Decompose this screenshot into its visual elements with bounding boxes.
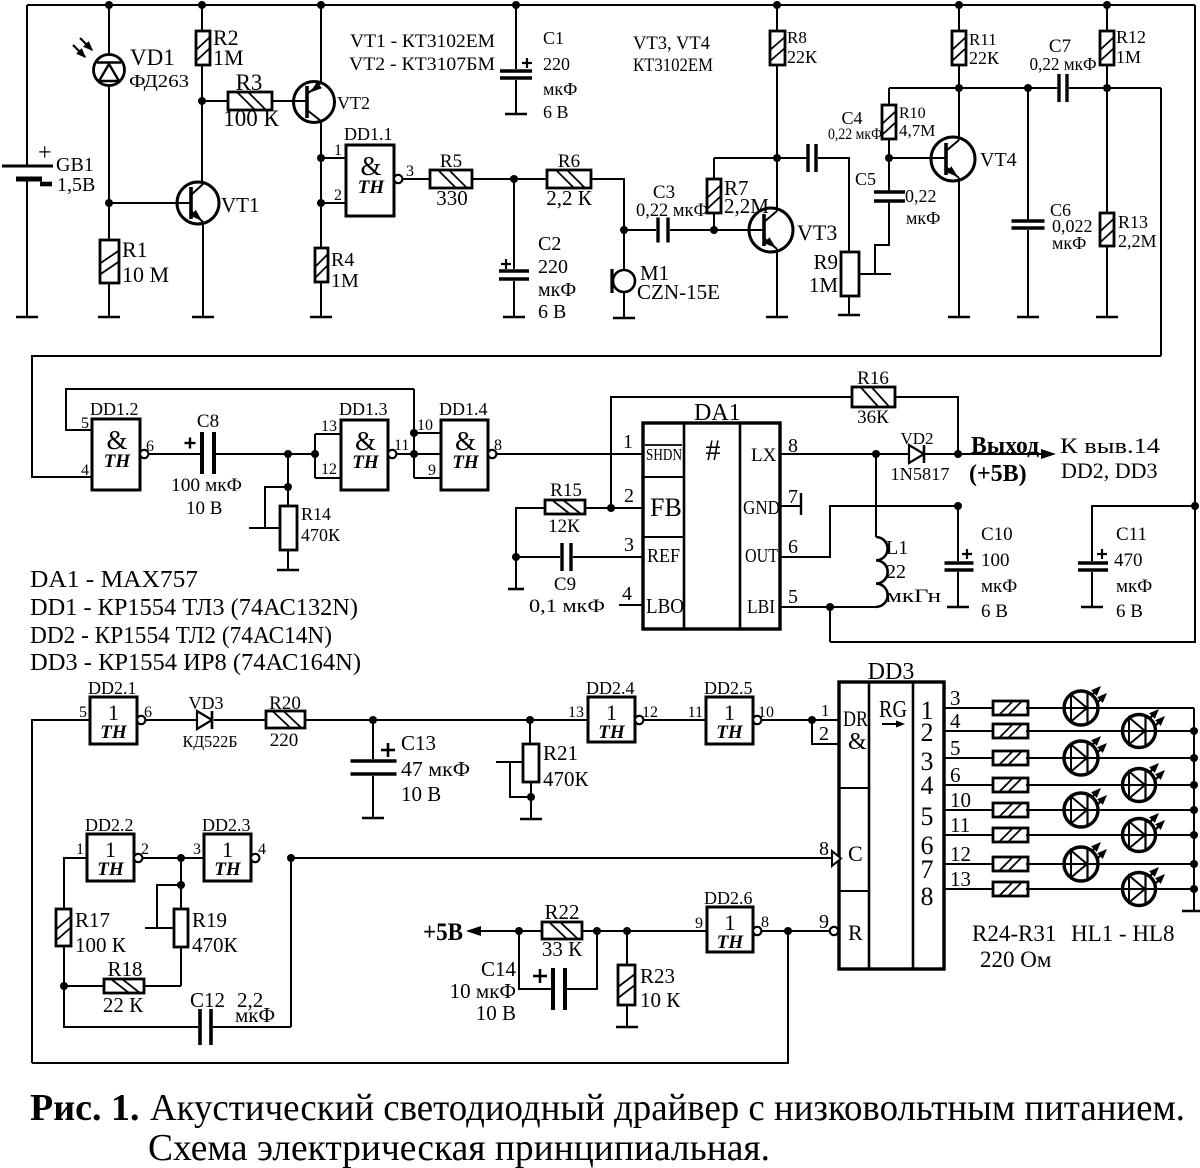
svg-text:6: 6	[146, 438, 154, 455]
capacitor C10	[957, 506, 959, 561]
DD3 output pin 12 wire	[944, 863, 994, 865]
LED HL3	[1064, 741, 1098, 775]
svg-text:HL1 - HL8: HL1 - HL8	[1071, 921, 1174, 946]
DD3 output pin 5 wire	[944, 757, 994, 759]
svg-text:VT2 - КТ3107БМ: VT2 - КТ3107БМ	[349, 54, 495, 75]
svg-text:R15: R15	[550, 480, 582, 501]
wire LED to rail	[1098, 863, 1194, 865]
capacitor C13	[372, 720, 374, 759]
wire LED to rail	[1156, 730, 1194, 732]
svg-text:5: 5	[79, 704, 87, 721]
svg-text:10: 10	[950, 788, 971, 812]
DD3 output pin 4 wire	[944, 730, 994, 732]
svg-text:470К: 470К	[192, 933, 239, 957]
inductor L1	[875, 454, 877, 537]
svg-text:ТН: ТН	[100, 722, 128, 743]
svg-text:+: +	[38, 140, 52, 166]
resistor R1	[108, 203, 110, 240]
wire R28 to LED	[1026, 809, 1081, 811]
wire R30 to LED	[1026, 863, 1081, 865]
wire: right edge battery-sense rail	[830, 5, 1195, 642]
svg-text:DD1.2: DD1.2	[90, 399, 139, 419]
capacitor C8	[200, 432, 204, 474]
svg-text:LX: LX	[751, 445, 777, 466]
svg-text:DD1.3: DD1.3	[339, 399, 388, 419]
wire LBI pin5 / L1	[780, 606, 876, 608]
wire LBO pin4	[619, 604, 643, 606]
svg-text:R14: R14	[301, 504, 331, 524]
svg-text:3: 3	[193, 841, 201, 858]
svg-text:2,2 К: 2,2 К	[546, 186, 593, 210]
svg-text:10: 10	[758, 704, 774, 721]
resistor R31	[993, 882, 1028, 896]
capacitor C9	[516, 556, 560, 558]
svg-text:2: 2	[141, 841, 149, 858]
svg-text:470К: 470К	[301, 525, 341, 545]
svg-text:12: 12	[642, 704, 658, 721]
pin 2	[317, 199, 325, 207]
svg-text:DD2.4: DD2.4	[586, 678, 635, 698]
transistor VT4	[931, 137, 975, 181]
wire R input	[788, 930, 829, 932]
resistor R13	[1100, 213, 1114, 246]
wire R5 to R6	[472, 178, 547, 180]
svg-text:#: #	[706, 434, 721, 467]
resistor R8	[773, 1, 781, 9]
svg-text:330: 330	[436, 186, 468, 210]
resistor R6	[547, 170, 591, 188]
LED HL6	[1123, 819, 1156, 852]
svg-text:C4: C4	[841, 108, 862, 128]
svg-text:DD2, DD3: DD2, DD3	[1061, 458, 1158, 483]
resistor R14 with tap	[287, 454, 289, 506]
svg-text:ТН: ТН	[352, 452, 380, 473]
svg-text:36К: 36К	[857, 407, 889, 428]
wire VD1 to node	[108, 85, 110, 203]
resistor R27	[993, 778, 1028, 792]
resistor R21 with tap	[529, 720, 531, 744]
transistor VT3	[749, 208, 793, 252]
node R2/R3	[198, 97, 206, 105]
wire outer feedback loop	[32, 356, 1161, 477]
svg-text:100 К: 100 К	[75, 933, 127, 957]
ground R9	[838, 314, 860, 317]
wire bottom loop	[32, 931, 788, 1063]
microphone M1	[613, 270, 635, 292]
svg-text:4: 4	[921, 771, 934, 800]
ground C9	[508, 588, 524, 591]
svg-text:3: 3	[624, 534, 634, 556]
ground VT3	[766, 316, 788, 319]
svg-text:R3: R3	[236, 70, 263, 95]
svg-text:VD3: VD3	[189, 693, 224, 713]
svg-text:C2: C2	[538, 233, 561, 255]
svg-text:VD2: VD2	[900, 429, 933, 448]
svg-text:ТН: ТН	[717, 932, 745, 953]
svg-text:R21: R21	[543, 741, 578, 765]
svg-text:мкФ: мкФ	[235, 1003, 275, 1027]
svg-text:C11: C11	[1116, 524, 1147, 545]
capacitor C5	[888, 160, 890, 192]
svg-text:мкФ: мкФ	[543, 79, 577, 99]
clock triangle C input	[832, 851, 841, 866]
DD3 output pin 10 wire	[944, 809, 994, 811]
wire R20 to C13 node	[305, 719, 588, 721]
svg-text:R1: R1	[122, 237, 148, 262]
resistor R12	[1103, 1, 1111, 9]
LED HL1	[1064, 691, 1098, 725]
svg-text:DD1 - КР1554 ТЛ3 (74АС132N): DD1 - КР1554 ТЛ3 (74АС132N)	[30, 595, 358, 621]
photodiode VD1	[108, 5, 110, 55]
svg-text:R18: R18	[107, 957, 142, 981]
svg-text:11: 11	[688, 704, 703, 721]
svg-text:GB1: GB1	[56, 154, 94, 176]
wire LED to rail	[1156, 784, 1194, 786]
svg-text:22К: 22К	[969, 48, 1000, 68]
resistor R25	[993, 724, 1028, 738]
svg-text:7: 7	[921, 855, 934, 884]
svg-text:11: 11	[950, 813, 970, 837]
wire right vertical to outer loop	[1160, 88, 1162, 356]
svg-text:R5: R5	[440, 151, 462, 172]
svg-text:мкФ: мкФ	[1116, 576, 1152, 597]
wire VT4 emitter	[958, 178, 960, 317]
svg-text:220: 220	[538, 256, 568, 278]
resistor R4	[315, 248, 328, 282]
svg-text:0,1 мкФ: 0,1 мкФ	[529, 596, 605, 617]
svg-text:1М: 1М	[1116, 47, 1141, 67]
svg-text:13: 13	[321, 418, 337, 435]
wire: +1.5V top rail	[27, 4, 1195, 6]
svg-text:8: 8	[921, 882, 934, 911]
svg-text:7: 7	[788, 486, 798, 508]
svg-text:R16: R16	[857, 368, 889, 389]
svg-text:R22: R22	[544, 900, 579, 924]
node M1/C3	[620, 226, 628, 234]
svg-text:ТН: ТН	[358, 177, 386, 198]
resistor R3	[202, 100, 228, 102]
svg-text:1: 1	[821, 701, 830, 720]
wire R29 to LED	[1026, 834, 1139, 836]
svg-text:47 мкФ: 47 мкФ	[401, 757, 470, 781]
pin 3 output wire	[403, 178, 430, 180]
svg-text:DR: DR	[843, 706, 868, 731]
wire R3 to VT2 base	[272, 100, 307, 102]
node R10/C5/VT4 base	[885, 154, 893, 162]
svg-text:R20: R20	[269, 693, 301, 714]
svg-text:SHDN: SHDN	[646, 445, 682, 464]
svg-text:6 В: 6 В	[1116, 601, 1143, 622]
resistor R17	[64, 858, 87, 909]
svg-text:6: 6	[950, 763, 961, 787]
svg-text:Рис. 1.: Рис. 1.	[30, 1087, 139, 1129]
svg-text:ФД263: ФД263	[129, 71, 189, 91]
transistor VT1	[177, 182, 219, 224]
wire VT2 collector	[320, 121, 322, 248]
svg-text:VT3: VT3	[797, 220, 837, 245]
svg-text:6: 6	[788, 536, 798, 558]
capacitor C11	[1092, 506, 1195, 561]
wire DD1.4 out to DA1 pin1	[497, 453, 643, 455]
resistor R18	[64, 985, 104, 987]
svg-text:3: 3	[950, 686, 961, 710]
svg-text:C13: C13	[401, 731, 436, 755]
svg-text:R11: R11	[969, 30, 997, 49]
svg-text:мкГн: мкГн	[886, 586, 941, 607]
svg-text:6 В: 6 В	[538, 301, 566, 323]
svg-text:VT4: VT4	[980, 149, 1017, 171]
svg-text:10 К: 10 К	[640, 988, 681, 1012]
svg-text:100: 100	[981, 550, 1010, 571]
svg-text:10 мкФ: 10 мкФ	[450, 979, 516, 1003]
svg-text:4: 4	[258, 841, 266, 858]
svg-text:13: 13	[950, 867, 971, 891]
svg-text:LBI: LBI	[747, 596, 775, 618]
svg-text:R19: R19	[192, 908, 227, 932]
wire LX output	[780, 453, 909, 455]
wire DD1.4 pins bracket	[413, 389, 415, 478]
svg-text:100 мкФ: 100 мкФ	[171, 475, 242, 496]
ground R1	[98, 316, 120, 319]
wire DD2.2 output	[143, 857, 204, 859]
svg-text:R10: R10	[899, 105, 926, 122]
svg-text:100 К: 100 К	[223, 106, 279, 131]
svg-text:DD2 - КР1554 ТЛ2 (74АС14N): DD2 - КР1554 ТЛ2 (74АС14N)	[30, 623, 332, 649]
svg-text:DD1.4: DD1.4	[439, 399, 488, 419]
svg-text:0,22 мкФ: 0,22 мкФ	[636, 200, 708, 221]
svg-text:2: 2	[624, 485, 634, 507]
wire R27 to LED	[1026, 784, 1139, 786]
svg-text:2: 2	[334, 187, 342, 204]
svg-text:11: 11	[394, 437, 409, 454]
svg-text:1: 1	[334, 142, 342, 159]
svg-text:4: 4	[81, 462, 89, 479]
wire DD2.1 out to VD3	[146, 719, 197, 721]
svg-text:ТН: ТН	[97, 859, 125, 880]
svg-text:DD2.1: DD2.1	[88, 678, 137, 698]
resistor R2	[198, 1, 206, 9]
svg-text:ТН: ТН	[452, 452, 480, 473]
svg-text:10: 10	[417, 417, 433, 434]
svg-text:8: 8	[494, 437, 502, 454]
svg-text:5: 5	[921, 802, 934, 831]
capacitor C1	[512, 1, 520, 9]
LED HL8	[1123, 873, 1156, 906]
wire DD2.1 input loop	[32, 720, 90, 1063]
wire R15/FB	[585, 507, 643, 509]
svg-text:ТН: ТН	[214, 859, 242, 880]
svg-text:VT1: VT1	[221, 193, 260, 217]
svg-text:Акустический светодиодный драй: Акустический светодиодный драйвер с низк…	[150, 1087, 1185, 1129]
svg-text:4: 4	[622, 583, 632, 605]
wire VT1 emitter to ground	[202, 222, 204, 317]
wire base VT1	[109, 202, 191, 204]
DD3 output pin 11 wire	[944, 834, 994, 836]
node VT3 collector / C4	[773, 154, 781, 162]
resistor R30	[993, 857, 1028, 871]
svg-text:R13: R13	[1118, 212, 1148, 232]
svg-text:VT3, VT4: VT3, VT4	[633, 33, 710, 54]
svg-text:6: 6	[144, 704, 152, 721]
wire C4 to R9	[818, 158, 849, 252]
svg-text:VT1 - КТ3102ЕМ: VT1 - КТ3102ЕМ	[350, 31, 495, 52]
wire R7 top to collector node	[714, 157, 808, 159]
wire DD2.4 to DD2.5	[644, 719, 706, 721]
svg-text:220: 220	[543, 54, 570, 74]
resistor R11	[955, 1, 963, 9]
svg-text:КД522Б: КД522Б	[183, 732, 238, 751]
svg-text:C1: C1	[543, 28, 564, 48]
svg-text:R8: R8	[787, 28, 807, 47]
svg-text:470: 470	[1114, 550, 1143, 571]
svg-text:12К: 12К	[548, 516, 580, 537]
svg-text:К выв.14: К выв.14	[1060, 433, 1160, 458]
resistor R28	[993, 803, 1028, 817]
svg-text:C10: C10	[981, 524, 1013, 545]
svg-text:1М: 1М	[331, 270, 359, 292]
LED HL7	[1064, 847, 1098, 881]
svg-text:3: 3	[406, 163, 414, 180]
svg-text:DD2.3: DD2.3	[202, 815, 251, 835]
svg-text:220: 220	[270, 730, 299, 751]
wire VT4 base	[889, 157, 947, 159]
diode VD3	[197, 711, 212, 729]
svg-text:GND: GND	[743, 497, 780, 519]
wire LED to rail	[1156, 888, 1194, 890]
svg-text:C: C	[848, 841, 863, 866]
wire C8 to DD1.3	[216, 453, 315, 455]
svg-text:10 В: 10 В	[401, 782, 441, 806]
wire DD1.3 out	[397, 453, 441, 455]
pin 1	[317, 154, 325, 162]
svg-text:R9: R9	[813, 250, 838, 274]
capacitor C3	[624, 229, 656, 231]
resistor R16 feedback	[611, 397, 852, 508]
DD3 output pin 13 wire	[944, 888, 994, 890]
capacitor C7	[1057, 74, 1060, 102]
resistor R22	[542, 922, 582, 939]
svg-text:(+5В): (+5В)	[969, 461, 1027, 487]
pin7 GND stub	[780, 505, 801, 507]
wire R22 right	[582, 930, 707, 932]
svg-text:33 К: 33 К	[542, 937, 583, 961]
svg-text:DD2.5: DD2.5	[704, 678, 753, 698]
svg-text:6 В: 6 В	[981, 601, 1008, 622]
svg-text:9: 9	[695, 915, 703, 932]
svg-text:4,7М: 4,7М	[899, 121, 935, 140]
node VT1 base	[105, 199, 113, 207]
svg-text:2,2М: 2,2М	[1118, 231, 1157, 251]
svg-text:мкФ: мкФ	[906, 208, 940, 228]
svg-text:R4: R4	[331, 249, 354, 271]
node C2	[510, 175, 518, 183]
capacitor C12	[64, 986, 198, 1027]
svg-text:13: 13	[568, 704, 584, 721]
svg-text:CZN-15Е: CZN-15Е	[637, 280, 720, 304]
resistor R26	[993, 751, 1028, 765]
resistor R20	[266, 711, 305, 728]
svg-text:R6: R6	[558, 151, 580, 172]
svg-text:220 Ом: 220 Ом	[980, 947, 1052, 972]
capacitor C2	[513, 179, 515, 269]
wire R31 to LED	[1026, 888, 1139, 890]
resistor R23	[626, 931, 628, 965]
resistor R29	[993, 828, 1028, 842]
svg-text:FB: FB	[650, 493, 682, 522]
svg-text:2: 2	[819, 723, 829, 745]
svg-text:9: 9	[428, 462, 436, 479]
svg-text:1,5В: 1,5В	[57, 174, 95, 196]
resistor R7	[713, 158, 715, 179]
svg-text:10 М: 10 М	[122, 262, 169, 287]
svg-text:12: 12	[321, 461, 337, 478]
svg-text:ТН: ТН	[598, 722, 626, 743]
svg-text:1: 1	[76, 841, 84, 858]
svg-text:DA1 - MAX757: DA1 - MAX757	[30, 567, 198, 593]
wire DD2.5 out to DD3	[762, 719, 839, 721]
wire R6 to C3 node	[591, 179, 624, 270]
svg-text:RG: RG	[879, 697, 907, 723]
svg-text:9: 9	[819, 911, 829, 933]
LED HL4	[1123, 769, 1156, 802]
LED HL2	[1123, 715, 1156, 748]
battery GB1	[26, 5, 28, 166]
svg-text:5: 5	[788, 586, 798, 608]
wire LED to rail	[1098, 757, 1194, 759]
svg-text:8: 8	[819, 838, 829, 860]
capacitor C4	[806, 144, 809, 172]
R input bubble	[830, 927, 838, 935]
resistor R19 with tap	[180, 858, 182, 909]
svg-text:22: 22	[886, 561, 906, 583]
svg-text:R12: R12	[1116, 27, 1146, 47]
wire LED to rail	[1098, 809, 1194, 811]
svg-text:C5: C5	[855, 169, 876, 189]
svg-text:1: 1	[623, 431, 633, 453]
wire inner feedback loop	[66, 389, 414, 430]
svg-text:VT2: VT2	[337, 93, 370, 113]
wire R24 to LED	[1026, 707, 1081, 709]
capacitor C6	[1024, 84, 1032, 92]
svg-text:C8: C8	[197, 411, 219, 432]
diode VD2	[909, 445, 924, 463]
svg-text:КТ3102ЕМ: КТ3102ЕМ	[633, 55, 713, 76]
ground R4	[310, 316, 332, 319]
svg-text:мкФ: мкФ	[1052, 233, 1086, 253]
wire LED to rail	[1098, 707, 1194, 709]
svg-text:4: 4	[950, 709, 961, 733]
node R7/VT3 base	[710, 226, 718, 234]
svg-text:L1: L1	[886, 537, 908, 559]
svg-text:6 В: 6 В	[543, 102, 569, 122]
wire LED cathode rail	[1193, 708, 1195, 911]
wire C input	[291, 857, 832, 859]
svg-text:ТН: ТН	[104, 451, 132, 472]
svg-text:OUT: OUT	[745, 545, 778, 567]
svg-text:0,22 мкФ: 0,22 мкФ	[1030, 54, 1097, 74]
svg-text:R23: R23	[640, 964, 675, 988]
svg-text:&: &	[848, 729, 867, 755]
svg-text:12: 12	[950, 842, 971, 866]
svg-text:DD1.1: DD1.1	[344, 124, 393, 144]
svg-text:5: 5	[81, 415, 89, 432]
wire C12 to pin4 node	[290, 858, 292, 1027]
resistor R10	[888, 88, 890, 105]
wire DD1.2 out to C8	[149, 453, 200, 455]
resistor R5	[430, 170, 472, 188]
resistor R24	[993, 701, 1028, 715]
svg-text:DD2.2: DD2.2	[85, 815, 134, 835]
